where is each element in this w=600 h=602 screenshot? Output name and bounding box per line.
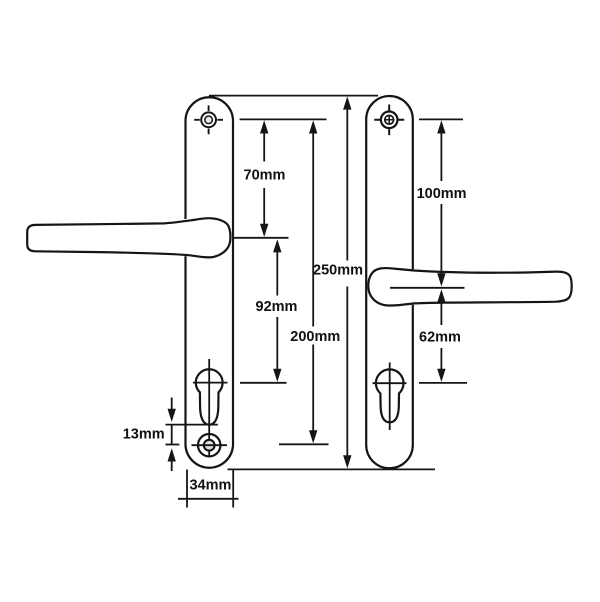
dim tick: right cylinder level (419, 382, 467, 384)
dim 13mm arrow up (below) (171, 461, 173, 471)
svg-text:100mm: 100mm (417, 186, 467, 202)
centerline left (through cylinder and screw) (208, 359, 210, 456)
dim tick: 13mm upper (166, 424, 218, 426)
svg-text:250mm: 250mm (313, 262, 363, 278)
dim tick: left cylinder level (240, 382, 287, 384)
extension lines 34mm (187, 470, 233, 508)
cylinder left crosshair horizontal (193, 382, 228, 384)
svg-text:200mm: 200mm (290, 329, 340, 345)
dim line 34mm (178, 498, 239, 500)
svg-text:34mm: 34mm (189, 478, 231, 494)
dim tick: top plate level (209, 95, 378, 97)
dim 13mm arrow down (above) (171, 398, 173, 410)
dim 250mm arrow up (346, 109, 348, 261)
screw S1 (left plate top) (201, 112, 216, 127)
dim 100mm arrow up (440, 133, 442, 181)
dim tick: left handle level (233, 237, 289, 239)
svg-text:62mm: 62mm (419, 330, 461, 346)
euro cylinder left (keyhole) (196, 369, 223, 425)
dim 200mm arrow down (312, 345, 314, 432)
handle lever right (368, 268, 571, 305)
svg-text:13mm: 13mm (123, 426, 165, 442)
dim 250mm arrow down (346, 287, 348, 457)
cylinder right crosshair vertical (389, 363, 391, 431)
dim tick: bottom plate level (228, 468, 436, 470)
dim tick: bottom screw level (279, 443, 329, 445)
screw S2 (left plate bottom) (198, 434, 220, 456)
euro cylinder right (keyhole) (376, 369, 404, 422)
backplate left (186, 97, 234, 468)
dim 62mm arrow up (440, 303, 442, 325)
dim tick: left screw level (240, 118, 327, 120)
dim 70mm arrow down (263, 188, 265, 224)
screw S2 crosshair horizontal (192, 444, 228, 446)
backplate right (366, 96, 413, 468)
svg-text:92mm: 92mm (256, 299, 298, 315)
dim 62mm arrow down (440, 348, 442, 370)
dim 13mm connector line (171, 425, 173, 445)
cylinder right crosshair horizontal (373, 382, 407, 384)
centerline: right handle (390, 287, 465, 289)
svg-text:70mm: 70mm (244, 168, 286, 184)
dim tick: 13mm lower (166, 444, 180, 446)
dim 200mm arrow up (312, 133, 314, 327)
handle lever left (27, 218, 230, 257)
dim 92mm arrow up (276, 252, 278, 295)
dim 70mm arrow up (263, 133, 265, 162)
screw S3 (right plate top) (381, 112, 398, 129)
dim 92mm arrow down (276, 317, 278, 370)
dim 100mm arrow down (440, 204, 442, 274)
dim tick: right screw level (419, 118, 463, 120)
